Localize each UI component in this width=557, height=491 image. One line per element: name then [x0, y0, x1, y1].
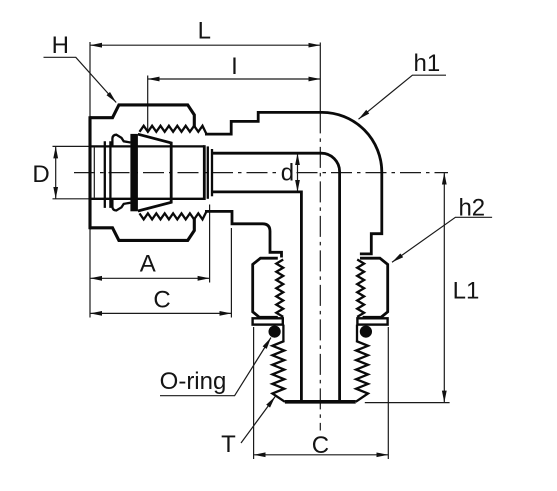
dimension I [148, 78, 321, 80]
locknut right [360, 258, 388, 317]
bore top line [212, 153, 340, 401]
front ferrule [138, 134, 171, 211]
locknut left [253, 258, 278, 317]
label O-ring leader [160, 338, 271, 396]
svg-text:A: A [140, 250, 156, 277]
dimension d [297, 153, 299, 192]
svg-text:d: d [281, 160, 294, 187]
back ferrule top [112, 135, 130, 147]
nut face [88, 116, 91, 229]
nut outline top [90, 105, 194, 128]
svg-text:h2: h2 [458, 194, 485, 221]
dimension C bottom [254, 454, 389, 456]
nut outline bottom [90, 218, 194, 241]
tube end face [203, 145, 206, 200]
svg-text:L: L [198, 18, 211, 45]
label H leader [44, 57, 117, 102]
stud thread root right [356, 325, 358, 341]
svg-text:I: I [231, 53, 238, 80]
body top profile [205, 112, 382, 254]
O-ring right [360, 326, 372, 338]
dimension L1 [443, 173, 445, 403]
O-ring left [269, 326, 281, 338]
nut thread top [140, 126, 207, 134]
ferrule gap bar [130, 134, 138, 211]
dimension A [90, 277, 210, 279]
vertical centerline [319, 43, 321, 113]
nut counterbore line [93, 147, 95, 198]
stud bottom face [285, 400, 356, 404]
nut internal shoulder lines [104, 141, 106, 208]
dimension D [55, 146, 57, 198]
tube bottom line [90, 198, 204, 200]
stud thread root left [282, 325, 284, 341]
stud thread right [356, 341, 368, 402]
svg-text:L1: L1 [453, 278, 480, 305]
label h1 leader [359, 75, 447, 119]
svg-text:h1: h1 [414, 50, 441, 77]
back ferrule bottom [112, 199, 130, 211]
svg-text:C: C [153, 287, 170, 314]
dimension C left [90, 312, 231, 314]
svg-text:H: H [52, 32, 69, 59]
label h2 leader [392, 217, 492, 262]
svg-text:O-ring: O-ring [160, 368, 227, 395]
stud thread left [272, 341, 285, 402]
tube top line [90, 145, 204, 147]
bore shoulder [211, 149, 213, 196]
svg-text:T: T [221, 431, 236, 458]
nut thread bottom [140, 211, 207, 219]
svg-text:D: D [32, 161, 49, 188]
label T leader [241, 397, 275, 444]
washer right [357, 318, 387, 324]
horizontal centerline [74, 172, 279, 174]
svg-text:C: C [312, 432, 329, 459]
bore bottom line [212, 192, 301, 401]
body bottom profile [205, 211, 282, 257]
washer left [253, 318, 283, 324]
dimension L [90, 44, 320, 46]
